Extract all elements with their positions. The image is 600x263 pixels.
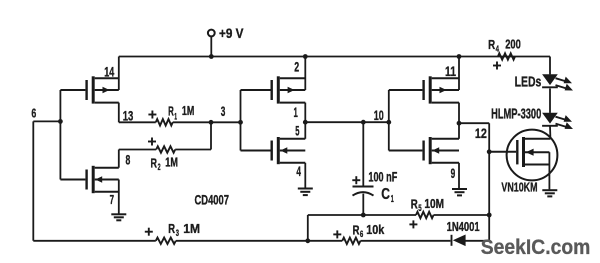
svg-text:1: 1 <box>294 104 298 120</box>
svg-text:R: R <box>353 222 360 237</box>
svg-text:R: R <box>151 155 158 170</box>
resistor R6 10k <box>342 238 360 244</box>
resistor R2 1M <box>156 146 175 152</box>
node 6 input wire <box>31 106 60 122</box>
transistor T3 CD4007 pins 2/1 (PMOS) <box>241 57 306 123</box>
svg-text:13: 13 <box>123 107 134 123</box>
svg-text:HLMP-3300: HLMP-3300 <box>491 106 541 122</box>
designator C1 <box>381 186 394 205</box>
junction dot pin1 output <box>303 120 308 125</box>
polarity + for R4 <box>493 62 501 70</box>
value label R5 10M <box>411 196 444 214</box>
svg-text:R: R <box>168 221 175 236</box>
svg-text:SeekIC.com: SeekIC.com <box>481 236 591 259</box>
value label R3 1M <box>168 221 200 239</box>
transistor Q1 VN10KM (power MOSFET in circle) <box>489 130 557 190</box>
svg-text:8: 8 <box>126 152 131 168</box>
ground under T4 <box>298 189 313 196</box>
svg-text:1M: 1M <box>165 155 178 170</box>
junction dot R5 right <box>487 213 492 218</box>
junction dot node 6 gates <box>58 119 63 124</box>
wire gate bus T1-T2 <box>59 90 61 180</box>
wire left vertical node 6 to bottom rail <box>32 121 34 240</box>
wire top +9V rail <box>119 56 550 58</box>
junction dot +9V on rail <box>209 54 214 59</box>
svg-text:VN10KM: VN10KM <box>501 180 537 195</box>
wire R5 rail <box>308 215 489 241</box>
ground under VN10KM <box>542 190 557 196</box>
svg-text:5: 5 <box>295 123 299 139</box>
svg-text:6: 6 <box>31 106 36 121</box>
value label R6 10k <box>353 222 385 240</box>
svg-text:R: R <box>488 37 495 52</box>
svg-text:CD4007: CD4007 <box>195 192 230 207</box>
svg-text:1M: 1M <box>182 103 194 118</box>
svg-text:10k: 10k <box>366 222 385 237</box>
wire bottom rail <box>33 240 489 242</box>
LED D2 HLMP-3300 <box>542 113 558 126</box>
junction dot rails join <box>305 238 310 243</box>
svg-text:200: 200 <box>505 36 521 51</box>
polarity + for R2 <box>148 138 156 146</box>
svg-text:14: 14 <box>104 64 114 80</box>
svg-text:7: 7 <box>110 192 114 207</box>
svg-text:1: 1 <box>174 112 177 123</box>
svg-text:10: 10 <box>374 107 384 123</box>
svg-text:3: 3 <box>221 103 226 119</box>
wire pin13 row to node 3 <box>119 121 241 123</box>
resistor R3 1M <box>156 238 176 244</box>
svg-text:2: 2 <box>158 162 161 173</box>
junction dot VN10KM gate tee <box>487 149 492 154</box>
transistor T4 CD4007 pins 5/4 (NMOS) <box>241 122 306 188</box>
svg-text:1N4001: 1N4001 <box>447 220 480 234</box>
ground under T6 <box>452 189 467 195</box>
transistor T5 CD4007 pin 11 (PMOS) <box>389 57 459 124</box>
svg-text:C: C <box>381 186 390 203</box>
polarity + for C1 <box>352 176 360 184</box>
value label R2 1M <box>151 155 179 173</box>
junction dot node 3 <box>238 120 243 125</box>
resistor R4 200 <box>498 53 515 59</box>
svg-text:1: 1 <box>391 194 394 205</box>
LED D2 emission arrows <box>556 115 574 129</box>
LED D1 emission arrows <box>556 77 574 91</box>
svg-text:12: 12 <box>475 125 487 141</box>
value label R4 200 <box>488 36 521 55</box>
wire pin 8 row <box>119 122 211 149</box>
svg-text:1M: 1M <box>183 221 200 236</box>
junction dot R1/R2 tee <box>209 120 214 125</box>
svg-text:5: 5 <box>418 203 422 214</box>
svg-text:R: R <box>411 196 418 211</box>
svg-text:4: 4 <box>496 44 500 55</box>
wire node10 gate bus <box>388 90 390 151</box>
svg-text:2: 2 <box>294 58 299 74</box>
svg-text:+9 V: +9 V <box>219 25 244 41</box>
resistor R5 10M <box>416 212 434 218</box>
svg-text:6: 6 <box>360 229 363 240</box>
polarity + for R6 <box>333 230 341 238</box>
svg-text:9: 9 <box>451 165 456 181</box>
svg-text:3: 3 <box>176 228 179 239</box>
wire LED branch down <box>549 57 551 139</box>
LED D1 <box>542 74 558 87</box>
svg-text:10M: 10M <box>424 196 444 211</box>
transistor T2 CD4007 pins 8/7 (NMOS) <box>60 150 118 214</box>
polarity + for R5 <box>409 220 417 228</box>
wire node3 gate bus <box>240 90 242 151</box>
polarity + for R3 <box>145 228 153 236</box>
capacitor C1 100nF <box>353 122 374 215</box>
svg-text:100 nF: 100 nF <box>368 169 397 185</box>
junction dot pin2 on rail <box>303 54 308 59</box>
junction dot C1 bottom <box>361 213 366 218</box>
svg-text:4: 4 <box>296 163 301 179</box>
resistor R1 1M <box>156 119 173 125</box>
polarity + for R1 <box>148 111 156 119</box>
svg-text:LEDs: LEDs <box>515 73 542 90</box>
+9V terminal <box>208 25 244 57</box>
value label R1 1M <box>168 103 194 122</box>
junction dot pin11 on rail <box>457 54 462 59</box>
junction dot node 10 <box>386 120 391 125</box>
wire pin1 to node 10 <box>305 121 389 123</box>
junction dot pin12 output <box>457 121 462 126</box>
transistor T1 CD4007 pins 14/13 (PMOS) <box>60 57 118 123</box>
diode D3 1N4001 <box>452 235 466 247</box>
wire pin12 to gate column <box>459 123 489 241</box>
ground under T2 <box>111 214 126 220</box>
transistor T6 CD4007 pin 9 (NMOS) <box>389 123 459 188</box>
junction dot C1 tee <box>361 120 366 125</box>
svg-text:11: 11 <box>445 63 456 79</box>
